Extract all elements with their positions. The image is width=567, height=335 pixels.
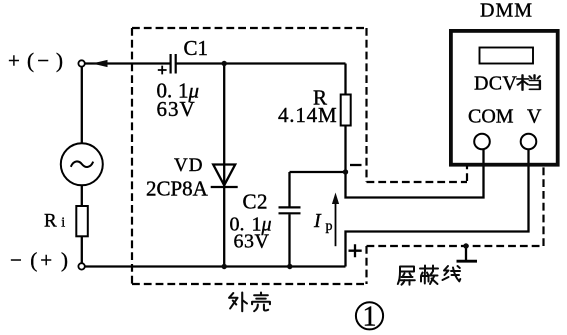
svg-text:COM: COM (468, 106, 514, 128)
svg-text:2CP8A: 2CP8A (146, 177, 209, 201)
svg-text:C1: C1 (184, 36, 209, 60)
svg-text:4.14M: 4.14M (278, 103, 337, 127)
svg-text:63V: 63V (234, 231, 270, 253)
svg-text:I: I (313, 210, 322, 232)
svg-text:63V: 63V (157, 97, 196, 121)
svg-text:1: 1 (363, 302, 377, 333)
svg-text:R: R (44, 211, 57, 232)
svg-text:C2: C2 (243, 190, 269, 214)
svg-text:DMM: DMM (480, 0, 533, 22)
svg-text:p: p (326, 219, 333, 234)
svg-text:i: i (61, 216, 65, 231)
svg-text:V: V (527, 106, 542, 128)
svg-text:DCV: DCV (474, 73, 517, 95)
svg-text:VD: VD (174, 155, 203, 176)
